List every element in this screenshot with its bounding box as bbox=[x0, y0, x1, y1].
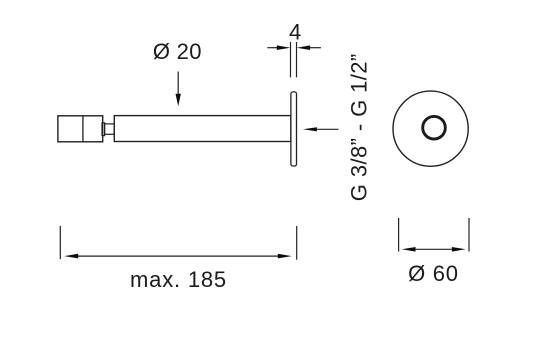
flange pointer arrow bbox=[303, 127, 339, 131]
svg-text:Ø 20: Ø 20 bbox=[153, 39, 202, 64]
block divider line bbox=[82, 116, 84, 142]
svg-text:4: 4 bbox=[289, 20, 301, 45]
dim Ø60: extension lines bbox=[399, 218, 469, 252]
neck bbox=[105, 124, 115, 134]
collar bbox=[102, 123, 105, 136]
inner ring bbox=[423, 116, 446, 139]
dim max185: arrowheads bbox=[64, 254, 78, 259]
svg-text:G 3/8” - G 1/2”: G 3/8” - G 1/2” bbox=[346, 53, 371, 201]
dim 4: extension lines bbox=[267, 42, 321, 77]
dim Ø60: arrowheads bbox=[402, 247, 416, 252]
dim max185: extension lines bbox=[60, 226, 296, 260]
flange bbox=[291, 92, 297, 166]
wall-plate circle bbox=[393, 91, 468, 166]
spout body block bbox=[58, 116, 103, 142]
Ø20 leader arrow (down) bbox=[176, 72, 181, 107]
svg-text:max. 185: max. 185 bbox=[130, 267, 227, 292]
svg-text:Ø 60: Ø 60 bbox=[408, 261, 459, 286]
dim 4: shafts bbox=[267, 47, 278, 49]
dim 4: arrowheads bbox=[277, 45, 291, 50]
tube bbox=[114, 116, 291, 142]
